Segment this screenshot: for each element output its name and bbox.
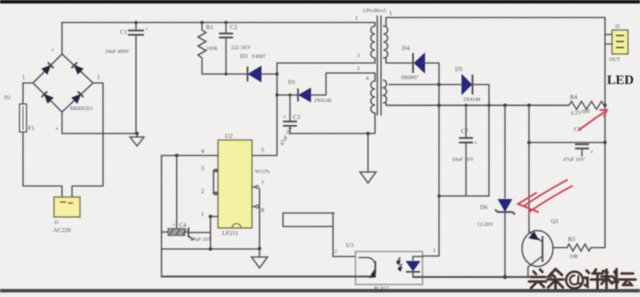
pin 1 row xyxy=(209,216,218,218)
diode D1 1N4148 xyxy=(298,89,311,102)
transformer secondary winding top xyxy=(384,26,388,58)
transformer secondary winding bottom xyxy=(384,80,387,103)
node rail Q1 xyxy=(527,104,531,108)
svg-text:8: 8 xyxy=(261,207,264,214)
svg-text:2: 2 xyxy=(201,188,204,195)
node bus rail xyxy=(437,104,441,108)
svg-text:47uF 16V: 47uF 16V xyxy=(190,237,212,243)
svg-text:U3: U3 xyxy=(346,242,354,249)
node rail C7 xyxy=(464,104,467,107)
wire bridge top to rail xyxy=(61,23,63,55)
svg-text:10uF 400V: 10uF 400V xyxy=(105,49,130,55)
wire secondary output rail xyxy=(386,103,569,105)
svg-text:C1: C1 xyxy=(120,29,127,36)
wire secondary bus vertical xyxy=(423,63,439,256)
wire bridge bottom to ground row xyxy=(62,112,137,134)
resistor R1 xyxy=(198,23,206,75)
node J2 R4 xyxy=(603,104,606,107)
svg-text:LPoxBxx5: LPoxBxx5 xyxy=(363,8,387,14)
svg-text:C2: C2 xyxy=(230,24,237,31)
diode D3 F4007 xyxy=(248,67,262,82)
svg-text:LP211: LP211 xyxy=(222,230,238,237)
capacitor C1 xyxy=(128,23,149,134)
svg-text:1N4148: 1N4148 xyxy=(463,97,481,103)
svg-text:5: 5 xyxy=(261,147,264,154)
svg-text:1: 1 xyxy=(355,15,358,22)
svg-text:Q1: Q1 xyxy=(551,218,559,225)
transformer aux winding xyxy=(371,81,375,113)
wire D5 row xyxy=(389,84,462,86)
capacitor C3 xyxy=(283,95,297,134)
IC U2 body xyxy=(218,140,252,228)
wire R5 row xyxy=(553,247,567,249)
wire left frame vertical xyxy=(161,156,163,278)
node ground junction left xyxy=(135,132,139,136)
wire snubber row xyxy=(202,73,248,75)
connector J2 xyxy=(605,30,628,54)
svg-text:LED: LED xyxy=(607,72,634,87)
svg-text:BRIDGE1: BRIDGE1 xyxy=(70,106,93,112)
svg-text:D1: D1 xyxy=(288,79,296,86)
node R1 top xyxy=(200,21,203,24)
node snubber drain xyxy=(275,72,278,75)
svg-text:1: 1 xyxy=(201,211,204,218)
ground symbol center xyxy=(360,134,376,184)
diode D5 1N4148 xyxy=(462,75,473,95)
svg-text:3: 3 xyxy=(334,249,337,255)
svg-text:PC817: PC817 xyxy=(374,286,389,292)
zener D6 xyxy=(495,105,515,277)
wire top primary rail xyxy=(62,23,375,27)
svg-text:D6: D6 xyxy=(480,204,488,211)
pin 7 stub xyxy=(252,186,259,189)
svg-text:+: + xyxy=(51,47,55,54)
svg-text:SB0807: SB0807 xyxy=(401,75,419,81)
svg-text:D5: D5 xyxy=(455,66,463,73)
resistor R4 xyxy=(569,101,605,109)
wire pin78 bus to ground xyxy=(259,189,261,257)
node rail D6 xyxy=(503,104,507,108)
wire fuse to AC row xyxy=(23,132,62,197)
svg-text:1: 1 xyxy=(433,248,436,254)
wire diode to drain node xyxy=(261,73,277,75)
capacitor C6 xyxy=(575,144,594,156)
svg-text:3: 3 xyxy=(357,53,360,59)
wire pin4 row xyxy=(162,155,219,157)
svg-text:U2: U2 xyxy=(225,133,233,140)
svg-text:1: 1 xyxy=(22,74,25,81)
ground symbol left xyxy=(130,134,144,147)
pin 3 stub xyxy=(214,169,219,172)
node D1 junction xyxy=(275,93,278,96)
svg-text:F4007: F4007 xyxy=(252,54,266,60)
svg-text:8: 8 xyxy=(366,76,369,82)
wire feedback loop xyxy=(283,213,356,257)
svg-text:+: + xyxy=(172,222,176,229)
svg-text:OUT: OUT xyxy=(609,57,621,63)
svg-text:12-20V: 12-20V xyxy=(477,222,494,228)
wire C4 branch vertical xyxy=(176,156,178,232)
red scribble near R4 xyxy=(579,110,607,130)
node rail D5 xyxy=(487,104,490,107)
optocoupler U3 box xyxy=(356,252,423,285)
svg-text:1: 1 xyxy=(389,10,392,17)
svg-text:1N4148: 1N4148 xyxy=(314,98,332,104)
svg-text:R4: R4 xyxy=(570,94,577,101)
wire D5 out drop xyxy=(474,85,490,197)
svg-text:+: + xyxy=(55,126,59,133)
svg-text:+: + xyxy=(474,140,478,147)
svg-text:7: 7 xyxy=(261,180,264,187)
opto led xyxy=(397,257,423,278)
svg-text:2: 2 xyxy=(357,66,360,72)
svg-text:4: 4 xyxy=(201,148,204,155)
node bus C7 row xyxy=(437,194,440,197)
node pin4 branch xyxy=(175,154,178,157)
wire bridge right to AC row xyxy=(72,83,103,197)
svg-text:+: + xyxy=(590,149,594,156)
ground symbol IC xyxy=(252,257,268,268)
node aux ground xyxy=(366,132,370,136)
transformer T1 core xyxy=(377,16,381,115)
svg-text:F1: F1 xyxy=(28,125,35,132)
node row249 bus xyxy=(209,247,212,250)
watermark toutiao xukeyun xyxy=(529,269,636,289)
wire row 249 xyxy=(162,248,260,250)
fuse F1 xyxy=(20,104,27,132)
svg-text:W11%: W11% xyxy=(255,169,270,175)
svg-text:C3: C3 xyxy=(293,114,300,121)
node row249 gnd xyxy=(258,247,262,251)
svg-text:222 1KV: 222 1KV xyxy=(231,45,251,51)
wire C6 row xyxy=(529,142,605,144)
wire bottom rail right xyxy=(413,276,552,278)
svg-text:R5: R5 xyxy=(568,236,575,243)
transistor Q1 xyxy=(522,231,553,278)
wire primary bottom row y63 xyxy=(277,58,375,63)
wire drain vertical to pin5 xyxy=(252,63,277,156)
wire J2 feed vertical xyxy=(604,18,606,248)
node C3 top xyxy=(289,94,292,97)
svg-text:1: 1 xyxy=(97,74,100,81)
wire secondary top rail xyxy=(386,18,605,27)
wire aux ground row xyxy=(290,113,375,134)
capacitor C4 xyxy=(162,228,211,240)
svg-text:+: + xyxy=(283,114,287,121)
node pin1 xyxy=(209,215,212,218)
wire D4 out to bus xyxy=(425,62,440,64)
svg-text:AC220: AC220 xyxy=(53,227,71,234)
svg-text:+: + xyxy=(145,26,149,33)
wire bottom rail left xyxy=(162,276,372,278)
capacitor C2 xyxy=(219,23,233,75)
connector J1 AC220 xyxy=(54,197,80,217)
svg-text:D4: D4 xyxy=(402,45,410,52)
svg-text:J2: J2 xyxy=(615,24,620,30)
svg-text:C4: C4 xyxy=(179,222,186,229)
transformer primary winding top xyxy=(371,26,375,58)
diode D4 xyxy=(413,53,425,73)
pin 2 stub xyxy=(214,171,219,196)
svg-text:47uF 16V: 47uF 16V xyxy=(563,157,585,163)
node C2 bottom xyxy=(225,73,228,76)
bottom border bar xyxy=(0,285,640,297)
wire secondary D4 row xyxy=(386,58,412,63)
node D6 bottom rail xyxy=(503,275,507,279)
bridge rectifier BRIDGE1 xyxy=(33,54,93,112)
wire bridge left to fuse xyxy=(23,83,33,104)
capacitor C7 xyxy=(459,105,478,196)
node bus D5 row xyxy=(437,83,441,87)
top border bar xyxy=(0,0,640,4)
wire pin1 bus down xyxy=(210,217,212,250)
node C6 row left xyxy=(527,141,531,145)
resistor R5 xyxy=(567,244,605,251)
svg-text:10R: 10R xyxy=(569,254,578,260)
opto phototransistor xyxy=(359,257,376,277)
red annotation arrow xyxy=(518,180,572,212)
svg-text:3: 3 xyxy=(201,165,204,172)
svg-text:J1: J1 xyxy=(54,220,59,226)
svg-text:D3: D3 xyxy=(240,53,248,60)
svg-text:R1: R1 xyxy=(206,24,213,31)
wire aux winding row xyxy=(277,73,375,95)
pin 8 stub xyxy=(252,205,259,208)
node C1 top xyxy=(134,21,137,24)
svg-text:C7: C7 xyxy=(461,128,468,135)
svg-text:D2: D2 xyxy=(4,95,11,101)
node C2 top xyxy=(224,21,227,24)
node J2 C6 xyxy=(603,141,606,144)
wire C7 bottom row xyxy=(439,195,489,197)
wire Q1 base feed xyxy=(528,105,530,232)
svg-text:103K: 103K xyxy=(206,46,218,52)
svg-text:10uF 16V: 10uF 16V xyxy=(452,157,474,163)
